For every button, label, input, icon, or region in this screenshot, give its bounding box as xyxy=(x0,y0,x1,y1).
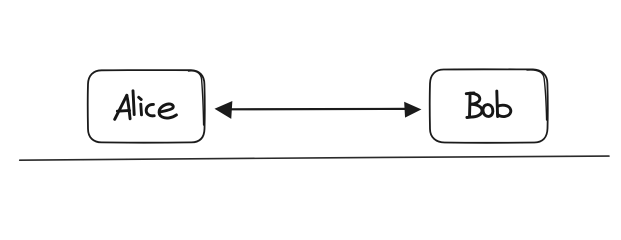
arrowhead left xyxy=(216,102,232,118)
label Bob text xyxy=(466,91,510,117)
arrow Alice-Bob shaft xyxy=(228,108,407,111)
node Alice box xyxy=(88,70,205,143)
node Bob box xyxy=(430,69,548,142)
baseline ground line xyxy=(20,156,609,160)
label Alice text xyxy=(115,91,177,120)
arrowhead right xyxy=(405,103,421,117)
